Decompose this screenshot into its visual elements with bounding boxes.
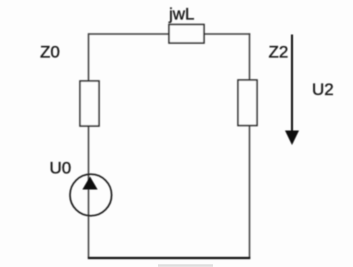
wire top right: jwL to Z2 branch xyxy=(204,33,250,35)
voltage arrow U2 head xyxy=(285,131,299,146)
svg-text:U2: U2 xyxy=(312,80,334,99)
wire left branch xyxy=(88,33,90,258)
source U0 arrowhead xyxy=(82,177,97,190)
source U0 (circle) xyxy=(70,174,112,216)
wire bottom xyxy=(88,257,251,259)
impedance Z0 (box) xyxy=(80,81,99,126)
impedance Z2 (box) xyxy=(238,80,257,126)
svg-text:Z0: Z0 xyxy=(40,43,60,62)
svg-text:U0: U0 xyxy=(50,159,72,178)
inductor jwL (box) xyxy=(169,25,204,44)
svg-text:jwL: jwL xyxy=(168,5,195,24)
wire top: node between Z0, jwL xyxy=(89,33,170,35)
wire right branch xyxy=(249,33,251,258)
voltage arrow U2 shaft xyxy=(291,35,293,133)
svg-text:Z2: Z2 xyxy=(269,43,289,62)
